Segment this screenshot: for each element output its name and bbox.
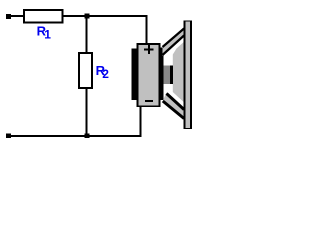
speaker LS1 driver body bbox=[137, 43, 161, 107]
speaker magnet pole right bbox=[158, 48, 163, 101]
wire speaker minus down to bottom rail bbox=[140, 106, 142, 136]
svg-text:2: 2 bbox=[102, 67, 109, 81]
speaker front panel bbox=[184, 21, 193, 130]
label R2 bbox=[96, 63, 110, 81]
svg-text:1: 1 bbox=[44, 27, 51, 41]
wire top into speaker plus bbox=[146, 15, 148, 44]
minus mark bbox=[145, 100, 153, 102]
terminal top-left bbox=[6, 14, 11, 19]
wire junction down to R2 bbox=[86, 16, 88, 53]
speaker cone surround bottom bbox=[163, 93, 184, 120]
speaker magnet pole left bbox=[132, 49, 139, 101]
wire bottom rail bbox=[8, 135, 142, 137]
label R1 bbox=[37, 24, 52, 42]
speaker cone surround top bbox=[163, 28, 185, 57]
speaker cone face bbox=[173, 42, 184, 103]
resistor R2 bbox=[78, 52, 93, 89]
wire terminal to R1 bbox=[10, 15, 24, 17]
wire R1 to speaker corner bbox=[64, 15, 148, 17]
wire R2 down to bottom junction bbox=[86, 88, 88, 136]
node junction top bbox=[85, 14, 90, 19]
resistor R1 bbox=[23, 9, 64, 24]
plus mark bbox=[144, 45, 153, 54]
speaker voice-coil neck bbox=[164, 66, 173, 85]
node junction bottom bbox=[85, 133, 90, 138]
terminal bottom-left bbox=[6, 133, 11, 138]
